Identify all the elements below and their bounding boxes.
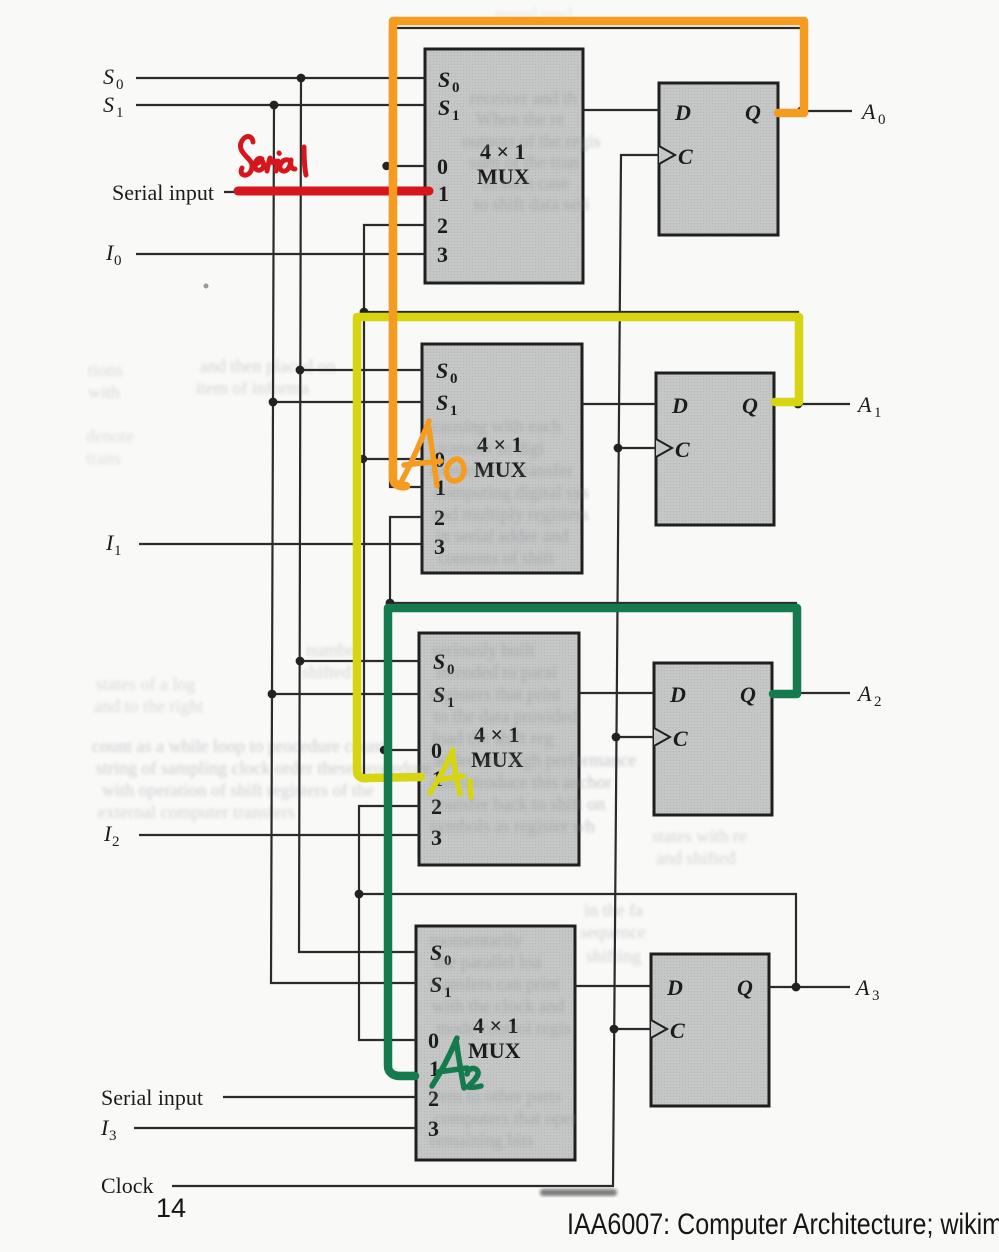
svg-text:item to other parts: item to other parts xyxy=(430,1086,561,1106)
wire U3 S0 stub xyxy=(300,660,419,662)
svg-text:with: with xyxy=(88,382,120,402)
svg-text:load the shift reg: load the shift reg xyxy=(432,728,553,748)
scan speck xyxy=(204,284,209,289)
flip-flop FF2 (D flip-flop A1) xyxy=(656,373,774,525)
svg-text:S: S xyxy=(438,95,450,120)
svg-text:Q: Q xyxy=(737,975,753,1000)
wire U2 S1 stub xyxy=(273,401,422,403)
svg-text:outputs of the regis: outputs of the regis xyxy=(462,131,600,151)
wire I2 input (to U3 pin 3) xyxy=(139,834,419,836)
wire U2 pin 2 to A2 xyxy=(390,517,422,603)
junction A3 at Q of FF4 xyxy=(792,983,801,992)
svg-text:Q: Q xyxy=(742,393,758,418)
wire Clock input xyxy=(172,155,659,1186)
svg-text:Serial input: Serial input xyxy=(112,180,214,205)
svg-text:1: 1 xyxy=(452,108,460,124)
svg-text:sum of the tran: sum of the tran xyxy=(470,152,578,172)
flip-flop FF3 (D flip-flop A2) xyxy=(654,663,772,815)
wire A0 feedback loop (Q of FF1 over top to U1 pin 0 / U2 pin 1) xyxy=(390,28,802,487)
svg-text:symbols as register wh: symbols as register wh xyxy=(430,816,594,836)
wire U1 pin 2 to A1 xyxy=(364,225,425,312)
svg-text:external computer transfers: external computer transfers xyxy=(98,802,295,822)
svg-text:S: S xyxy=(436,390,448,415)
svg-text:A: A xyxy=(856,392,872,417)
svg-text:in such case: in such case xyxy=(482,173,569,193)
junction U1 pin 0 on A0 line xyxy=(382,162,390,170)
svg-text:to shift data seri: to shift data seri xyxy=(474,194,589,214)
svg-text:C: C xyxy=(678,144,693,169)
marker green A2 feedback trace xyxy=(388,608,797,1076)
clock wedge FF1 xyxy=(659,146,675,164)
marker yellow A1 feedback trace xyxy=(357,317,799,778)
wire A0 output xyxy=(778,110,852,112)
svg-text:S: S xyxy=(103,92,114,117)
junction clock at FF2 xyxy=(614,444,623,453)
wire S0 input horizontal xyxy=(136,77,425,79)
svg-text:3: 3 xyxy=(437,242,448,267)
svg-text:receiver and th: receiver and th xyxy=(470,88,577,108)
clock wedge FF2 xyxy=(656,439,672,457)
wire FF2 C stub xyxy=(618,447,656,449)
svg-text:A: A xyxy=(860,99,876,124)
svg-text:and shifted: and shifted xyxy=(656,848,735,868)
clock wedge FF4 xyxy=(651,1020,667,1038)
junction clock at FF3 xyxy=(612,733,621,742)
svg-text:states with re: states with re xyxy=(652,826,747,846)
wire FF2 D input xyxy=(582,403,656,405)
wire S0 vertical bus xyxy=(299,78,416,952)
svg-text:D: D xyxy=(666,975,683,1000)
svg-text:0: 0 xyxy=(114,253,122,269)
wire FF4 D input xyxy=(575,985,651,987)
wire A2 output xyxy=(772,692,850,694)
svg-text:14: 14 xyxy=(156,1193,186,1223)
svg-text:Clock: Clock xyxy=(101,1173,154,1198)
wire FF4 C stub xyxy=(614,1028,651,1030)
svg-text:C: C xyxy=(670,1018,685,1043)
svg-text:D: D xyxy=(669,682,686,707)
svg-text:to the data provided: to the data provided xyxy=(434,706,577,726)
svg-text:item of informa: item of informa xyxy=(196,378,309,398)
svg-text:When the re: When the re xyxy=(476,109,564,129)
svg-text:3: 3 xyxy=(109,1128,117,1144)
wire I0 input (to U1 pin 3) xyxy=(136,253,425,255)
handwriting "A2" green xyxy=(432,1038,481,1088)
wire S1 vertical bus xyxy=(271,105,416,983)
svg-text:1: 1 xyxy=(438,181,449,206)
svg-text:Q: Q xyxy=(745,100,761,125)
wire I3 input (to U4 pin 3) xyxy=(134,1127,416,1129)
junction A0 at Q of FF1 xyxy=(797,107,805,115)
svg-text:with the clock and: with the clock and xyxy=(432,996,564,1016)
svg-text:and then placed on: and then placed on xyxy=(200,356,335,376)
svg-text:S: S xyxy=(103,64,114,89)
svg-text:in the fa: in the fa xyxy=(584,900,643,920)
svg-text:computing digital sys: computing digital sys xyxy=(434,482,589,502)
svg-text:0: 0 xyxy=(116,77,124,93)
wire U2 S0 stub xyxy=(300,369,422,371)
mux U3 (4x1 MUX, stage 2) xyxy=(419,633,579,865)
svg-text:computers that oper: computers that oper xyxy=(434,1108,577,1128)
svg-text:number: number xyxy=(306,640,361,660)
wire S1 input horizontal xyxy=(136,104,425,106)
svg-text:1: 1 xyxy=(116,105,124,121)
wire U2 pin 0 stub to A1 xyxy=(358,458,422,460)
junction S0 at U3 xyxy=(296,657,305,666)
junction U2 pin 2 on A2 line xyxy=(386,599,395,608)
svg-text:sequence: sequence xyxy=(580,922,646,942)
handwriting "A0" orange xyxy=(400,421,464,486)
junction S1 at U3 xyxy=(268,690,277,699)
svg-text:MUX: MUX xyxy=(468,1038,521,1063)
junction clock at FF4 xyxy=(610,1025,619,1034)
wire A1 output xyxy=(774,403,850,405)
svg-text:contents of shift: contents of shift xyxy=(438,548,554,568)
junction U3 pin 2 on A3 line xyxy=(355,890,364,899)
svg-text:seriously built: seriously built xyxy=(432,640,535,660)
svg-text:A: A xyxy=(854,975,870,1000)
junction A1 at Q of FF2 xyxy=(794,400,803,409)
wire I1 input (to U2 pin 3) xyxy=(139,543,422,545)
svg-text:shifting: shifting xyxy=(586,946,641,966)
junction S1 top xyxy=(270,101,279,110)
wire FF1 D input xyxy=(583,109,659,111)
svg-text:mode control regis: mode control regis xyxy=(436,1018,571,1038)
svg-text:states of a log: states of a log xyxy=(96,674,195,694)
svg-text:transfer in digi: transfer in digi xyxy=(438,438,544,458)
junction U1 pin 2 on A1 line xyxy=(360,308,369,317)
svg-text:0: 0 xyxy=(878,112,886,128)
wire U3 pin 0 stub to A2 xyxy=(381,749,419,751)
mux U1 (4x1 MUX, stage 0) xyxy=(425,49,583,283)
svg-text:and to the right: and to the right xyxy=(94,696,203,716)
svg-text:momentarily: momentarily xyxy=(430,930,522,950)
svg-text:and multiply registers: and multiply registers xyxy=(432,504,589,524)
svg-text:2: 2 xyxy=(437,213,448,238)
flip-flop FF1 (D flip-flop A0) xyxy=(659,83,778,235)
junction U3 pin 0 on A2 line xyxy=(380,746,388,754)
svg-text:C: C xyxy=(675,437,690,462)
svg-text:with operation of shift regist: with operation of shift registers of the xyxy=(102,780,374,800)
wire U3 pin 2 to A3 xyxy=(359,806,419,894)
marker red serial trace xyxy=(238,187,429,196)
svg-text:D: D xyxy=(671,393,688,418)
svg-text:2: 2 xyxy=(112,834,120,850)
svg-text:3: 3 xyxy=(872,988,880,1004)
svg-text:Q: Q xyxy=(740,682,756,707)
svg-text:causing with each: causing with each xyxy=(432,416,561,436)
svg-text:A: A xyxy=(856,681,872,706)
junction A2 at Q of FF3 xyxy=(792,689,801,698)
wire A3 output xyxy=(769,986,850,988)
handwriting "A1" yellow xyxy=(430,750,471,797)
svg-text:intended to paral: intended to paral xyxy=(436,662,557,682)
page bleed-through text (decorative scan artifact) xyxy=(86,4,747,1150)
svg-text:1: 1 xyxy=(874,405,882,421)
svg-text:0: 0 xyxy=(450,371,458,387)
junction S1 at U2 xyxy=(269,398,278,407)
svg-text:S: S xyxy=(438,67,450,92)
mux U4 (4x1 MUX, stage 3) xyxy=(416,926,575,1160)
clock wedge FF3 xyxy=(654,728,670,746)
svg-text:C: C xyxy=(673,726,688,751)
wire A2 feedback loop (Q of FF3 to U4 pin 1) xyxy=(390,603,796,1073)
wire FF3 C stub xyxy=(616,736,654,738)
junction U2 pin 0 on A1 line xyxy=(359,455,367,463)
wire Serial input top (to U1 pin 1) xyxy=(224,191,425,193)
svg-text:transfers can print: transfers can print xyxy=(430,974,560,994)
svg-text:S: S xyxy=(436,358,448,383)
svg-text:the parallel loa: the parallel loa xyxy=(434,952,541,972)
junction S0 top xyxy=(297,74,306,83)
svg-text:D: D xyxy=(674,100,691,125)
svg-text:0: 0 xyxy=(452,80,460,96)
svg-text:remaining bits: remaining bits xyxy=(430,1130,533,1150)
wire FF3 D input xyxy=(579,692,654,694)
wire A3 feedback loop (Q of FF4 to U4 pin 0) xyxy=(359,894,796,1040)
svg-text:trans: trans xyxy=(86,448,121,468)
svg-text:shifted: shifted xyxy=(302,662,351,682)
svg-text:tions: tions xyxy=(88,360,123,380)
mux U2 (4x1 MUX, stage 1) xyxy=(422,344,582,573)
svg-text:adder and high performance: adder and high performance xyxy=(434,750,636,770)
wire Serial input bottom (to U4 pin 2) xyxy=(223,1096,416,1098)
scan smudge bottom xyxy=(540,1189,617,1196)
svg-text:IAA6007: Computer Architecture: IAA6007: Computer Architecture; wikime xyxy=(567,1208,999,1241)
svg-text:in serial adder and: in serial adder and xyxy=(436,526,568,546)
wire U1 pin 0 stub to A0 xyxy=(385,165,425,167)
wire A1 feedback loop (Q of FF2 to U3 pin 1) xyxy=(364,312,798,778)
junction S0 at U2 xyxy=(296,366,305,375)
svg-text:transfer back to shift on: transfer back to shift on xyxy=(434,794,605,814)
svg-text:0: 0 xyxy=(437,154,448,179)
flip-flop FF4 (D flip-flop A3) xyxy=(651,954,769,1106)
svg-text:count as a while loop to proce: count as a while loop to procedure count xyxy=(92,736,384,756)
wire U3 S1 stub xyxy=(272,693,419,695)
svg-text:registers that print: registers that print xyxy=(430,684,561,704)
svg-text:1: 1 xyxy=(114,543,122,559)
handwriting "Serial" red xyxy=(240,136,306,175)
svg-text:denote: denote xyxy=(86,426,134,446)
svg-text:2: 2 xyxy=(874,694,882,710)
marker orange A0 feedback trace xyxy=(393,21,804,486)
svg-text:Serial input: Serial input xyxy=(101,1085,203,1110)
